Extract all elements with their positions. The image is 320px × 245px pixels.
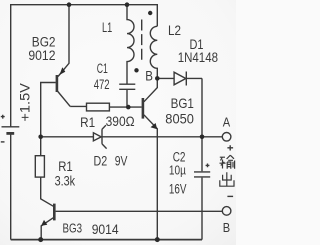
svg-text:16V: 16V	[169, 181, 187, 197]
svg-text:BG3: BG3	[63, 220, 83, 235]
svg-text:9014: 9014	[92, 221, 119, 237]
svg-text:1N4148: 1N4148	[178, 49, 218, 65]
svg-text:BG1: BG1	[171, 95, 194, 111]
svg-text:8050: 8050	[165, 111, 194, 127]
svg-text:D2: D2	[94, 152, 108, 168]
svg-text:10µ: 10µ	[169, 163, 186, 178]
svg-text:+1.5V: +1.5V	[18, 83, 33, 122]
svg-text:9V: 9V	[115, 152, 128, 168]
svg-text:L2: L2	[168, 22, 181, 38]
svg-text:C1: C1	[97, 61, 108, 76]
svg-text:472: 472	[94, 77, 110, 92]
svg-text:L1: L1	[102, 19, 112, 35]
svg-text:B: B	[223, 221, 230, 235]
svg-text:A: A	[223, 116, 231, 130]
svg-text:R1: R1	[80, 114, 95, 130]
svg-text:B: B	[145, 69, 153, 84]
svg-text:9012: 9012	[28, 48, 55, 63]
svg-text:390Ω: 390Ω	[106, 113, 135, 129]
svg-text:3.3k: 3.3k	[55, 172, 76, 188]
